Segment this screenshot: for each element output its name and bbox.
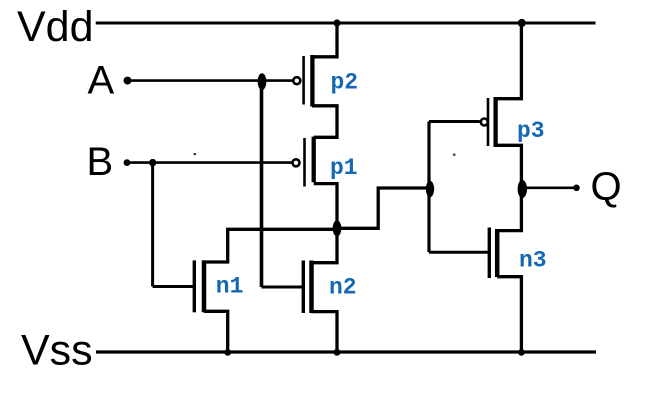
svg-text:p2: p2 — [331, 70, 359, 96]
svg-text:Vss: Vss — [21, 327, 93, 375]
svg-text:n1: n1 — [216, 274, 244, 300]
svg-text:p3: p3 — [517, 118, 545, 144]
svg-text:n3: n3 — [519, 248, 547, 274]
svg-text:Q: Q — [591, 165, 622, 209]
svg-text:n2: n2 — [329, 275, 357, 301]
svg-text:B: B — [87, 140, 114, 184]
svg-text:p1: p1 — [330, 155, 358, 181]
svg-text:A: A — [88, 59, 115, 103]
svg-text:Vdd: Vdd — [17, 3, 94, 51]
